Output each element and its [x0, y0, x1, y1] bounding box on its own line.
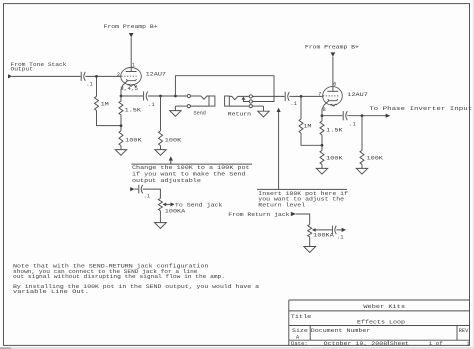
resistor 1M (grid resistor, right) — [299, 96, 312, 133]
svg-text:1M: 1M — [303, 123, 311, 129]
cathode lead — [121, 81, 127, 96]
plate lead up to B+ — [332, 57, 334, 92]
node junction cathode V1b — [321, 114, 324, 117]
ground (left 100K) — [115, 150, 126, 156]
plate bar — [327, 90, 338, 92]
wire 1M bottom to cathode bus right — [301, 133, 322, 145]
svg-text:1: 1 — [467, 341, 470, 347]
input port arrow (From Tone Stack) — [8, 74, 12, 78]
svg-text:Size: Size — [292, 328, 308, 334]
svg-text:100K: 100K — [326, 156, 344, 162]
ground (output 100K) — [356, 168, 367, 174]
node junction cathode V1a — [120, 95, 123, 98]
wire cap to pot top — [143, 189, 161, 198]
svg-text:Effects Loop: Effects Loop — [357, 319, 405, 325]
node junction 1M/1.5K/100K — [120, 124, 123, 127]
capacitor .1 (send pot) — [139, 185, 150, 200]
ground (right 100K) — [316, 168, 327, 174]
svg-text:Weber Kits: Weber Kits — [363, 304, 405, 310]
page corner mark — [0, 347, 11, 349]
svg-text:.1: .1 — [290, 101, 297, 107]
ground (send 100K) — [155, 150, 166, 156]
node junction send 100K tap — [159, 95, 162, 98]
wire: C1 to grid node — [85, 75, 121, 77]
svg-text:1.5K: 1.5K — [125, 107, 143, 113]
wire arrow to pot top — [296, 214, 310, 225]
triode V1a 12AU7 (cathode follower, left) — [121, 37, 142, 96]
wire junction down to 100K — [361, 116, 363, 151]
page right edge shadow — [473, 0, 474, 349]
annotation arrow (change 100K note) — [170, 160, 172, 164]
plate bar — [126, 71, 137, 73]
input arrow (to send pot) — [130, 187, 134, 191]
node junction output 100K tap — [361, 114, 364, 117]
resistor 1.5K (cathode, left) — [119, 96, 142, 115]
svg-text:Sheet: Sheet — [390, 341, 409, 347]
jack J2 Return — [225, 95, 264, 111]
triode V1b 12AU7 (cathode follower, right) — [322, 57, 342, 116]
wire: junction down to 1M — [96, 76, 98, 96]
cathode lead — [322, 101, 329, 116]
capacitor C4 .1 (output coupling) — [343, 111, 356, 128]
svg-text:output adjustable: output adjustable — [132, 178, 201, 184]
svg-text:.1: .1 — [86, 82, 93, 88]
svg-text:if you want to make the Send: if you want to make the Send — [132, 172, 246, 178]
svg-text:Send: Send — [194, 110, 206, 116]
wire 1.5K to lower junction — [120, 115, 122, 131]
wire C3 to grid V1b — [289, 95, 322, 97]
svg-text:3,4,5: 3,4,5 — [120, 86, 138, 92]
svg-text:REV: REV — [459, 328, 470, 334]
annotation overline (change note) — [131, 163, 252, 165]
wire bypass loop — [175, 76, 274, 102]
svg-text:7: 7 — [318, 92, 321, 98]
svg-text:1M: 1M — [101, 101, 109, 107]
wire arrow to cap — [135, 188, 139, 190]
svg-text:2: 2 — [117, 72, 120, 78]
wire pot to ground — [159, 211, 161, 223]
output port arrow To Phase Inverter — [386, 114, 391, 118]
svg-text:October 19, 2008: October 19, 2008 — [324, 341, 388, 347]
wire: input to C1 — [12, 75, 81, 77]
wire 100K to ground — [321, 164, 323, 168]
svg-text:From Preamp B+: From Preamp B+ — [305, 44, 359, 50]
svg-text:Title: Title — [291, 314, 312, 320]
capacitor .1 (return pot) — [332, 226, 343, 241]
annotation overline (insert note) — [257, 188, 347, 190]
svg-text:To Phase Inverter Input: To Phase Inverter Input — [369, 106, 472, 112]
svg-text:Change the 100K to a 100K pot: Change the 100K to a 100K pot — [132, 165, 250, 171]
node junction at grid of V1a — [95, 75, 98, 78]
title block frame — [289, 300, 470, 345]
arrow to return input — [342, 228, 346, 232]
svg-text:out signal without disrupting: out signal without disrupting the signal… — [13, 274, 225, 280]
plate lead up to B+ — [130, 37, 132, 71]
resistor 100K (output level) — [360, 150, 384, 164]
wire 100K to ground — [120, 146, 122, 150]
svg-text:From Preamp B+: From Preamp B+ — [104, 24, 158, 30]
wire cap to arrow — [336, 229, 341, 231]
wire return tip to C3 — [252, 95, 284, 97]
svg-text:.1: .1 — [337, 234, 344, 240]
node junction right divider — [321, 144, 324, 147]
wire pot to ground — [309, 237, 311, 247]
ground (return jack) — [258, 111, 269, 117]
svg-text:100KA: 100KA — [313, 233, 335, 239]
wire C2 to send jack — [148, 95, 187, 97]
node junction bypass tap — [174, 95, 177, 98]
grid dashed — [122, 75, 138, 77]
ground (send jack) — [170, 111, 181, 117]
ground (send pot) — [155, 223, 167, 229]
svg-text:Document Number: Document Number — [311, 328, 371, 334]
svg-text:6: 6 — [333, 82, 336, 88]
svg-text:100K: 100K — [165, 138, 183, 144]
resistor 100K (divider, right) — [320, 150, 344, 164]
switch contact arrow — [241, 97, 245, 100]
svg-text:12AU7: 12AU7 — [347, 92, 367, 98]
wire 1.5K to lower junction — [321, 135, 323, 151]
svg-text:.1: .1 — [144, 194, 151, 200]
svg-text:12AU7: 12AU7 — [146, 72, 166, 78]
heater squiggle — [330, 104, 337, 106]
svg-text:1 of: 1 of — [429, 341, 443, 347]
svg-text:A: A — [296, 335, 300, 341]
cathode dish — [126, 79, 136, 81]
svg-text:100KA: 100KA — [165, 208, 187, 214]
jack J1 Send — [175, 94, 215, 110]
wire 100K to ground — [160, 146, 162, 150]
svg-text:To Send jack: To Send jack — [175, 203, 223, 209]
svg-text:Return level: Return level — [258, 202, 305, 208]
wire junction down to 100K — [160, 96, 162, 131]
svg-text:1: 1 — [132, 62, 135, 68]
svg-text:.1: .1 — [148, 102, 155, 108]
svg-text:variable Line Out.: variable Line Out. — [13, 289, 89, 295]
wire C4 to output arrow — [347, 115, 385, 117]
wire: 1M bottom to cathode bus — [97, 110, 122, 125]
svg-text:1.5K: 1.5K — [326, 127, 344, 133]
svg-text:Date:: Date: — [291, 341, 308, 347]
ground (return pot) — [304, 247, 316, 253]
capacitor C2 .1 (cathode out, left) — [144, 91, 155, 108]
resistor 1.5K (cathode, right) — [320, 116, 344, 135]
cathode dish — [328, 99, 338, 101]
arrow From Return jack — [291, 212, 296, 216]
svg-text:Output: Output — [11, 67, 34, 73]
page bottom edge shadow — [0, 347, 474, 348]
wire 100K to ground — [361, 164, 363, 168]
heater squiggle — [128, 84, 137, 86]
resistor 100K (send level) — [159, 131, 183, 146]
svg-text:100K: 100K — [125, 138, 143, 144]
svg-text:100K: 100K — [367, 156, 385, 162]
wire cathode junction to C2 — [121, 95, 143, 97]
potentiometer 100KA (return) — [308, 225, 335, 239]
capacitor C3 .1 (return coupling) — [285, 92, 297, 107]
resistor 100K (divider, left) — [119, 131, 143, 146]
svg-text:From Return jack: From Return jack — [228, 212, 289, 218]
wiper label arrow: To Send jack — [170, 202, 174, 206]
node junction grid V1b — [300, 95, 303, 98]
resistor 1M (grid resistor, left) — [95, 96, 109, 110]
wire cathode junction to C4 — [322, 115, 343, 117]
svg-text:.1: .1 — [349, 122, 356, 128]
svg-text:Return: Return — [228, 111, 251, 117]
capacitor C1 .1 (input coupling) — [81, 72, 93, 88]
annotation arrow (insert 100K note) — [278, 112, 280, 190]
grid dashed — [323, 95, 339, 97]
svg-text:8: 8 — [323, 107, 326, 113]
potentiometer 100KA (send) — [158, 198, 186, 214]
